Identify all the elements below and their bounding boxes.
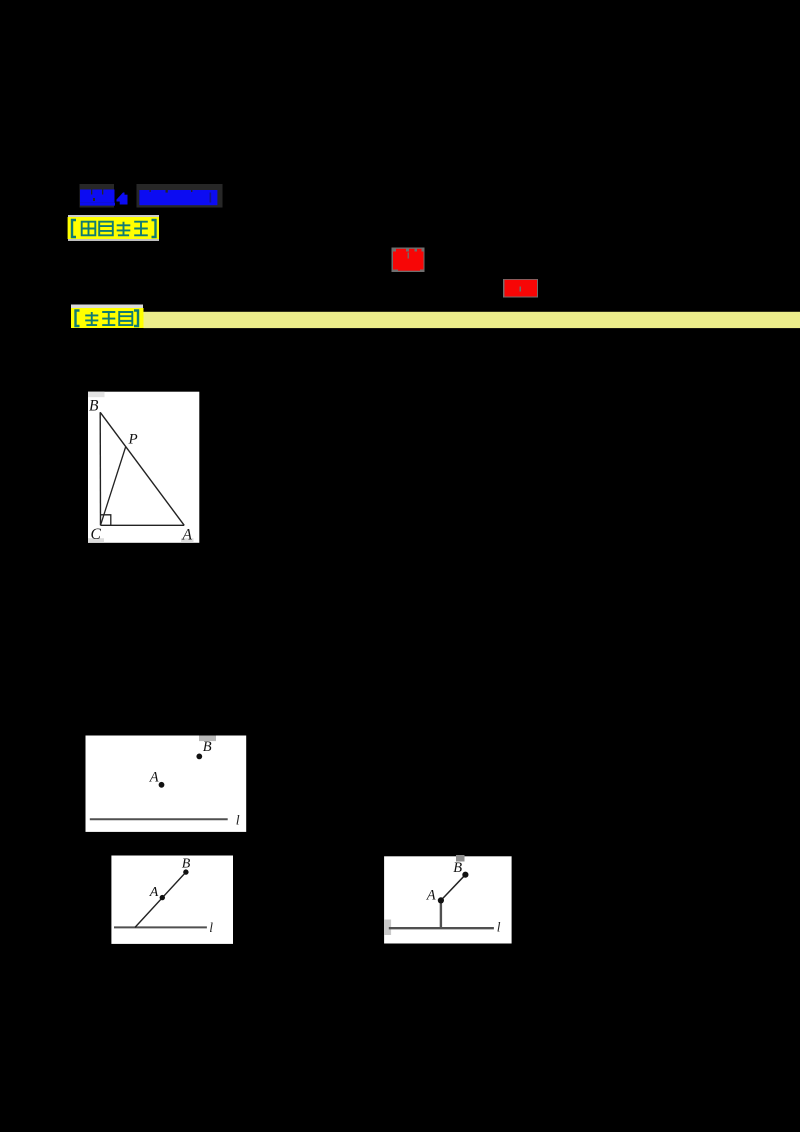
figure 4 vertical segment from A to l	[440, 900, 442, 928]
svg-text:A: A	[149, 885, 159, 900]
svg-text:l: l	[236, 814, 240, 829]
figure 3 point A dot	[160, 895, 165, 900]
figure 2 white panel	[86, 736, 247, 832]
heading [bishuati] teal text	[76, 311, 139, 327]
figure 4 line l	[389, 927, 494, 929]
svg-text:C: C	[91, 526, 102, 543]
figure 2 gray mark at top edge	[199, 736, 216, 742]
figure 1 white panel	[88, 392, 199, 543]
figure 4 point B dot	[462, 872, 468, 878]
figure 1 right-angle marker at C	[101, 515, 111, 526]
title highlight segment 2	[137, 184, 223, 208]
title blue text run 1	[80, 190, 115, 206]
figure 1 gray corner mark top-left	[88, 392, 105, 398]
red answer blank 1 red text	[393, 249, 424, 271]
figure 4 point A dot	[438, 897, 444, 903]
svg-text:l: l	[209, 920, 213, 935]
heading [zhishishuli] gray bottom edge	[68, 239, 159, 241]
figure 3 line l	[114, 926, 207, 928]
figure 2 point B dot	[196, 754, 202, 760]
heading [zhishishuli] yellow highlight	[68, 217, 159, 239]
figure 4 gray mark at left edge	[384, 920, 391, 936]
figure 2 point A dot	[159, 782, 165, 788]
svg-text:B: B	[453, 860, 462, 876]
figure 4 segment AB	[441, 875, 466, 901]
heading [zhishishuli] gray top edge	[68, 215, 159, 217]
figure 1 triangle side BC (vertical)	[99, 412, 101, 525]
figure 1 hypotenuse AB	[100, 412, 184, 525]
svg-text:l: l	[497, 920, 501, 935]
figure 3 ray through A,B	[135, 872, 186, 927]
figure 1 triangle side CA (horizontal)	[101, 524, 185, 526]
svg-text:B: B	[89, 398, 99, 415]
svg-text:A: A	[426, 888, 436, 904]
svg-text:A: A	[149, 770, 159, 786]
heading [bishuati] pale yellow bar	[144, 312, 800, 328]
svg-text:A: A	[182, 526, 193, 543]
figure 3 point B dot	[183, 869, 188, 874]
heading [bishuati] gray strip above	[71, 305, 143, 309]
figure 3 white panel	[111, 856, 233, 944]
svg-text:B: B	[182, 857, 191, 872]
title blue digit 4	[117, 193, 128, 205]
heading [bishuati] yellow highlight	[71, 308, 144, 328]
red answer blank 1 gray highlight	[392, 248, 425, 273]
figure 1 cevian CP	[101, 447, 126, 525]
red answer blank 2 red text	[505, 280, 538, 297]
red answer blank 2 gray highlight	[503, 279, 538, 298]
svg-text:B: B	[203, 739, 212, 755]
figure 1 gray corner mark bottom-left	[88, 538, 104, 543]
figure 2 line l	[90, 818, 228, 820]
title highlight segment 1	[80, 184, 115, 208]
heading [zhishishuli] teal text	[72, 220, 156, 237]
title blue text run 2	[139, 190, 217, 205]
figure 4 gray mark above B	[456, 855, 465, 862]
figure 4 white panel	[384, 856, 512, 943]
figure 1 gray corner mark bottom-right	[181, 538, 194, 543]
svg-text:P: P	[128, 432, 138, 448]
